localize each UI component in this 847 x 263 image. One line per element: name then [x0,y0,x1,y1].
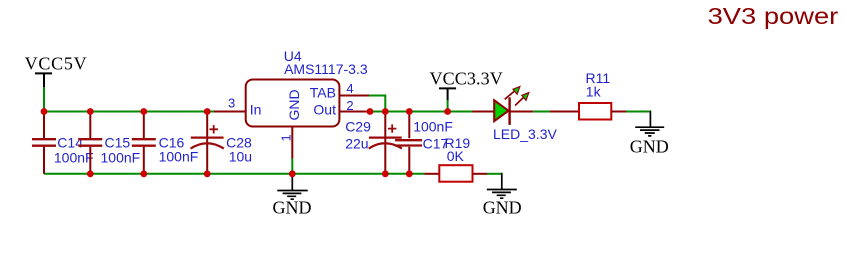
pin 3 wire [214,96,246,112]
svg-text:10u: 10u [229,148,252,164]
capacitor C28 polarized [191,112,252,174]
resistor R19 [425,135,488,182]
svg-text:C15: C15 [105,135,131,151]
junction C28 bottom [204,170,211,177]
svg-text:100nF: 100nF [54,149,94,165]
svg-text:In: In [250,102,262,118]
svg-text:1: 1 [279,134,294,141]
svg-text:GND: GND [273,198,312,218]
junction C28 top [204,108,211,115]
wire pin1 to bottom rail [291,159,293,174]
svg-text:3: 3 [228,96,235,111]
svg-text:100nF: 100nF [159,148,199,164]
ground under regulator [273,174,312,218]
svg-text:C14: C14 [57,135,83,151]
pin 2 wire Out [339,98,370,113]
wire input top rail [44,111,214,113]
svg-text:100nF: 100nF [101,149,141,165]
junction C16 top [140,108,147,115]
capacitor C14 [32,112,94,174]
svg-text:Out: Out [313,102,336,118]
svg-text:AMS1117-3.3: AMS1117-3.3 [284,61,368,77]
junction VCC3.3V [444,108,451,115]
junction GND rail [289,170,296,177]
junction pin2 out [367,108,374,115]
wire output rail [370,111,473,113]
svg-text:22u: 22u [345,135,368,151]
svg-text:2: 2 [346,98,353,113]
junction C16 bottom [140,170,147,177]
svg-text:100nF: 100nF [413,118,453,134]
capacitor C29 polarized [345,112,402,174]
wire TAB to out rail [369,96,385,112]
svg-text:VCC3.3V: VCC3.3V [430,69,503,89]
svg-text:TAB: TAB [310,84,336,100]
wire VCC5V stem [43,87,45,112]
junction C15 bottom [87,170,94,177]
svg-text:VCC5V: VCC5V [25,54,87,74]
junction C29 bottom [382,170,389,177]
junction TAB / C29 top [382,108,389,115]
svg-text:GND: GND [286,89,302,120]
junction C17 top [406,108,413,115]
svg-text:0K: 0K [447,148,465,164]
svg-text:3V3 power: 3V3 power [708,3,839,29]
svg-text:GND: GND [483,198,522,218]
regulator U4 AMS1117-3.3 [246,48,368,126]
svg-text:C29: C29 [345,119,371,135]
title 3V3 power [708,3,839,29]
wire VCC3.3V stem [447,100,449,112]
junction C15 top [87,108,94,115]
resistor R11 [550,70,626,119]
LED LED_3.3V [472,87,557,143]
svg-text:LED_3.3V: LED_3.3V [493,126,557,142]
svg-text:4: 4 [346,81,353,96]
ground right of R11 [630,111,669,157]
svg-text:GND: GND [630,137,669,157]
pin 4 wire TAB [339,81,369,96]
wire R19 to gnd corner [487,173,501,175]
capacitor C15 [78,112,140,174]
pin 1 wire GND [279,127,294,159]
capacitor C16 [132,112,199,174]
wire LED to R11 [533,111,550,113]
wire R11 to gnd corner [626,111,649,113]
power flag VCC5V [25,54,87,88]
ground under R19 [483,173,522,218]
junction VCC5V / C14 top [41,108,48,115]
junction C17 bottom [406,170,413,177]
power flag VCC3.3V [430,69,503,101]
capacitor C17 [395,112,453,174]
wire bottom rail [44,173,425,175]
svg-text:1k: 1k [586,83,602,99]
